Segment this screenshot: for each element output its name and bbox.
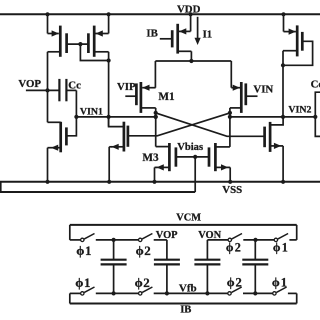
- svg-text:ϕ2: ϕ2: [135, 275, 151, 290]
- svg-text:IB: IB: [180, 305, 191, 316]
- svg-text:VOP: VOP: [18, 78, 41, 90]
- svg-text:VOP: VOP: [156, 230, 178, 241]
- svg-text:I1: I1: [203, 28, 213, 40]
- svg-text:Cc: Cc: [311, 79, 320, 91]
- svg-text:ϕ1: ϕ1: [272, 275, 288, 289]
- svg-text:ϕ1: ϕ1: [75, 275, 91, 290]
- svg-text:Vbias: Vbias: [177, 142, 203, 153]
- svg-text:M3: M3: [142, 152, 159, 164]
- svg-text:IB: IB: [146, 28, 157, 40]
- svg-text:ϕ1: ϕ1: [273, 241, 289, 255]
- svg-text:ϕ2: ϕ2: [136, 243, 152, 258]
- svg-text:ϕ2: ϕ2: [226, 241, 242, 255]
- svg-text:VIN1: VIN1: [80, 106, 103, 117]
- svg-text:VSS: VSS: [222, 184, 242, 196]
- svg-text:VCM: VCM: [176, 212, 201, 223]
- svg-text:VIN2: VIN2: [288, 104, 311, 115]
- svg-text:Vfb: Vfb: [179, 282, 197, 294]
- svg-text:ϕ2: ϕ2: [227, 275, 243, 289]
- svg-text:VIP: VIP: [117, 81, 136, 93]
- svg-text:VIN: VIN: [253, 84, 273, 96]
- svg-text:ϕ1: ϕ1: [76, 243, 92, 258]
- svg-text:M1: M1: [158, 91, 175, 103]
